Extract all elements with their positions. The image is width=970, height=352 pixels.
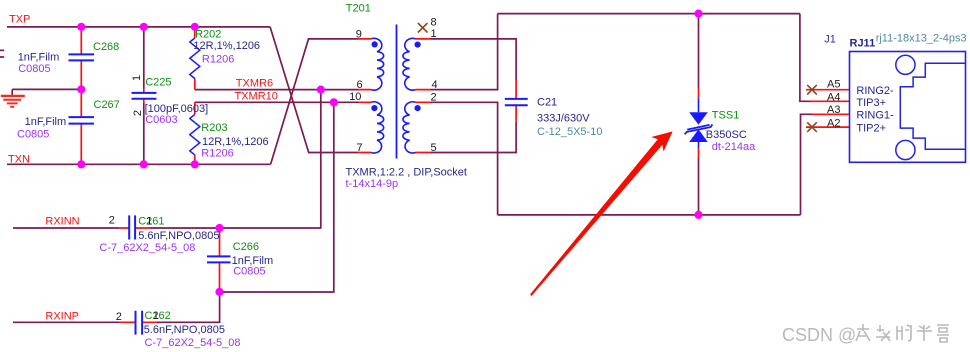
footprint C267 [17,128,49,140]
wire diagonal TXN to pin9 [271,39,359,164]
capacitor C266 [207,256,231,262]
svg-text:12R,1%,1206: 12R,1%,1206 [193,40,260,52]
refdes C266 [233,241,259,253]
svg-text:R1206: R1206 [201,148,233,160]
svg-text:6: 6 [357,79,363,91]
value R202 [193,40,260,52]
svg-text:1: 1 [131,75,143,81]
value C266 [232,255,274,267]
refdes TSS1 [712,110,740,122]
svg-text:R1206: R1206 [202,53,234,65]
svg-text:RING1-: RING1- [856,110,894,122]
svg-text:C0805: C0805 [233,266,265,278]
svg-text:5: 5 [431,142,437,154]
pin name A2 [827,117,840,129]
svg-text:A4: A4 [827,91,840,103]
value C225 [145,103,209,115]
svg-text:5.6nF,NPO,0805: 5.6nF,NPO,0805 [138,230,219,242]
net label TXN [8,154,30,166]
svg-text:C-12_5X5-10: C-12_5X5-10 [537,126,602,138]
wire pin1 to C21 top [431,39,516,80]
pin label RING2- [856,85,894,97]
pin number 1 transformer [431,28,437,40]
svg-text:10: 10 [349,91,361,103]
refdes C261 [138,216,164,228]
refdes R202 [195,28,221,40]
svg-text:1: 1 [146,216,152,228]
net label TXMR10 [235,90,278,102]
svg-text:7: 7 [357,142,363,154]
wire net TXMR10 [195,101,359,103]
svg-text:2: 2 [132,110,144,116]
no-connect X J1 A2 [807,122,817,132]
footprint R202 [202,53,234,65]
net label RXINP [45,311,79,323]
no-connect X pin 8 [418,23,428,33]
footprint C21 [537,126,602,138]
footprint C261 [99,242,195,254]
wire pin5 to C21 bottom [431,122,516,153]
refdes R203 [201,122,227,134]
value TSS1 [706,129,747,141]
wire top rail [498,13,800,15]
svg-text:5.6nF,NPO,0805: 5.6nF,NPO,0805 [144,324,225,336]
svg-text:T201: T201 [346,3,371,15]
footprint C225 [145,114,177,126]
wire vertical TXMR6 to RXINN [320,90,322,228]
pin number 2 C225 rotated [132,110,144,116]
svg-text:C0805: C0805 [17,128,49,140]
wire bottom rail to J1 A3 [801,114,813,215]
red annotation arrow [530,131,673,296]
net label TXP [9,14,30,26]
svg-text:RJ11: RJ11 [850,38,876,50]
transformer T201 core [396,25,398,159]
value T201 [346,166,467,178]
pin number 4 [432,79,438,91]
capacitor C267 [69,117,95,124]
footprint TSS1 [712,141,756,153]
wire pin2 to bottom rail [431,102,498,215]
svg-text:TXP: TXP [9,14,30,26]
TVS diode TSS1 [685,98,713,148]
svg-text:C0805: C0805 [18,63,50,75]
svg-text:1: 1 [431,28,437,40]
clipped component stub at left edge [0,50,4,57]
refdes C21 [537,97,557,109]
refdes C267 [94,99,120,111]
svg-text:TSS1: TSS1 [712,110,740,122]
wire vertical TXMR10 to C266 node [220,102,334,292]
pin number 2 transformer [431,92,437,104]
resistor R203 zigzag [190,114,200,154]
svg-text:TXN: TXN [8,154,30,166]
connector J1 RJ11 body [850,52,966,163]
red stub J1 A2 [806,126,850,128]
wire bottom rail [498,214,801,216]
svg-text:1nF,Film: 1nF,Film [25,116,67,128]
pin name A3 [827,104,840,116]
svg-text:R202: R202 [195,28,221,40]
refdes C225 [145,77,171,89]
svg-text:C266: C266 [233,241,259,253]
transformer winding 1-4 [403,38,421,90]
footprint C268 [18,63,50,75]
svg-text:CSDN @: CSDN @ [782,325,856,345]
value C262 [144,324,225,336]
svg-text:t-14x14-9p: t-14x14-9p [346,178,399,190]
ground symbol [1,89,25,107]
refdes C268 [93,41,119,53]
svg-text:TXMR,1:2.2 , DIP,Socket: TXMR,1:2.2 , DIP,Socket [346,166,467,178]
pin number 5 [431,142,437,154]
wire RXINN horizontal [13,227,322,229]
svg-text:1nF,Film: 1nF,Film [18,52,60,64]
transformer winding 10-7 [371,102,384,153]
red pin leads TSS1 [698,88,700,158]
svg-text:A2: A2 [827,117,840,129]
watermark CSDN [782,324,949,345]
red stub J1 A5 [806,89,850,91]
svg-text:9: 9 [356,28,362,40]
pin label RING1- [856,110,894,122]
red pin leads transformer left [358,39,371,153]
wire ground tap [12,88,81,90]
transformer winding 9-6 [371,38,384,90]
wire TXN horizontal [7,163,271,165]
pin number 2 C262 [116,311,122,323]
wire pin4 to top rail [431,14,498,90]
value C21 [537,112,590,124]
pin number 1 C261 [146,216,152,228]
red pin leads C21 [515,80,517,122]
svg-text:4: 4 [432,79,438,91]
pin number 10 [349,91,361,103]
pin label TIP2+ [856,122,886,134]
svg-text:TIP2+: TIP2+ [856,122,886,134]
svg-text:1: 1 [153,310,159,322]
pin number 7 [357,142,363,154]
capacitor C261 [129,215,135,239]
wire net TXMR6 [195,89,358,91]
red pin leads R203 [194,102,196,164]
svg-text:RXINN: RXINN [45,216,79,228]
value C267 [25,116,67,128]
footprint C262 [145,337,241,349]
red pin leads transformer right [416,39,432,153]
svg-text:J1: J1 [824,33,836,45]
capacitor C262 [136,311,143,335]
pin number 6 [357,79,363,91]
svg-text:C-7_62X2_54-5_08: C-7_62X2_54-5_08 [99,242,195,254]
value RJ11 [850,38,876,50]
svg-text:333J/630V: 333J/630V [537,112,590,124]
pin label TIP3+ [856,97,886,109]
svg-text:C-7_62X2_54-5_08: C-7_62X2_54-5_08 [145,337,241,349]
svg-text:8: 8 [431,16,437,28]
pin number 1 C225 rotated [131,75,143,81]
svg-text:R203: R203 [201,122,227,134]
pin number 2 C261 [109,214,115,226]
red pin leads C261 [119,227,150,229]
svg-text:C268: C268 [93,41,119,53]
svg-text:B350SC: B350SC [706,129,747,141]
wire C225 column [143,27,145,164]
svg-text:C225: C225 [145,77,171,89]
capacitor C268 [69,54,95,60]
wire diagonal TXP to pin7 [270,27,358,153]
svg-text:C0603: C0603 [145,114,177,126]
svg-text:2: 2 [431,92,437,104]
svg-text:A3: A3 [827,104,840,116]
red stub J1 A3 [812,113,850,115]
capacitor C21 [505,99,528,105]
pin name A4 [827,91,840,103]
value C268 [18,52,60,64]
red pin leads C266 [219,228,221,292]
svg-text:dt-214aa: dt-214aa [712,141,756,153]
net label RXINN [45,216,79,228]
value R203 [202,136,269,148]
pin name A5 [827,79,840,91]
pin number 8 [431,16,437,28]
svg-text:2: 2 [116,311,122,323]
wire top rail to J1 A4 [800,14,812,102]
svg-text:A5: A5 [827,79,840,91]
refdes T201 [346,3,371,15]
wire TXP horizontal [7,26,270,28]
svg-text:RXINP: RXINP [45,311,79,323]
svg-text:C267: C267 [94,99,120,111]
svg-text:C21: C21 [537,97,557,109]
value C261 [138,230,219,242]
red pin leads R202 [194,27,196,90]
svg-text:rj11-18x13_2-4ps3: rj11-18x13_2-4ps3 [876,33,967,45]
no-connect X J1 A5 [807,85,817,95]
svg-text:TXMR6: TXMR6 [236,77,273,89]
pin number 1 C262 [153,310,159,322]
svg-text:2: 2 [109,214,115,226]
pin number 9 [356,28,362,40]
footprint R203 [201,148,233,160]
transformer winding 2-5 [403,102,421,153]
svg-text:12R,1%,1206: 12R,1%,1206 [202,136,269,148]
wire RXINP horizontal [13,292,220,322]
net label TXMR6 [236,77,273,89]
red pin leads C262 [120,321,157,323]
refdes C262 [145,310,171,322]
resistor R202 zigzag [190,38,200,79]
red pin leads C225 [143,89,145,103]
capacitor C225 [132,93,157,99]
red column C268 C267 [80,27,82,164]
svg-text:TIP3+: TIP3+ [856,97,886,109]
svg-text:TXMR10: TXMR10 [235,90,278,102]
footprint T201 [346,178,399,190]
footprint J1 [876,33,967,45]
footprint C266 [233,266,265,278]
wire TSS1 column maroon parts [698,14,700,215]
refdes J1 [824,33,836,45]
red stub J1 A4 [810,100,850,102]
svg-text:RING2-: RING2- [856,85,894,97]
